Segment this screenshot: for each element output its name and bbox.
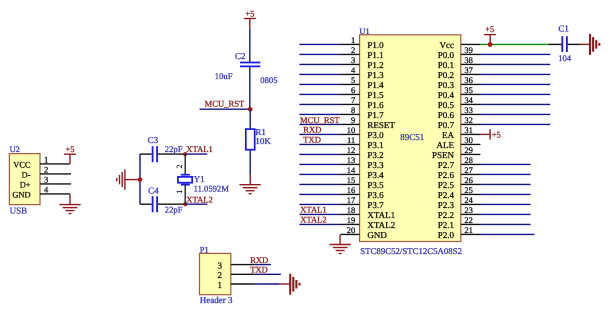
U1 pin 17 (P3.7) [299,195,384,210]
svg-text:22pF: 22pF [165,205,183,215]
svg-text:P3.7: P3.7 [367,200,384,210]
wire: P0.2 net [480,73,550,75]
U1 pin 6 (P1.5) [299,85,384,100]
svg-text:D+: D+ [20,180,31,189]
svg-text:P3.4: P3.4 [367,170,384,180]
U1 pin 2 (P1.1) [299,45,383,60]
svg-text:+5: +5 [485,24,494,34]
svg-text:P3.6: P3.6 [367,190,384,200]
wire: R1 to ground [249,150,251,175]
svg-text:24: 24 [464,195,473,205]
svg-text:U2: U2 [10,145,20,154]
svg-text:U1: U1 [359,27,369,36]
U2 pin 2 (D-) [40,164,71,174]
svg-text:P3.1: P3.1 [367,140,383,150]
U1 right pin 35 (P0.4) [438,85,481,100]
svg-text:C1: C1 [558,24,569,34]
U1 right pin 34 (P0.5) [438,95,481,110]
junction: XTAL2 node [183,202,187,206]
wire: P0.7 net [480,123,550,125]
svg-text:P2.5: P2.5 [438,180,455,190]
svg-text:35: 35 [464,85,473,95]
junction: crystal ground node [138,177,143,182]
svg-text:P0.4: P0.4 [438,90,455,100]
svg-text:D-: D- [22,170,31,179]
svg-text:P0.3: P0.3 [438,80,455,90]
capacitor C4 [140,185,185,212]
wire: +5 to C2 [249,29,251,58]
svg-text:P0.0: P0.0 [438,50,455,60]
svg-text:+5: +5 [245,8,254,18]
wire: C3/C4 left vertical [139,154,141,204]
resistor R1 [246,127,266,150]
svg-text:USB: USB [10,206,28,216]
svg-text:27: 27 [464,165,473,175]
svg-text:MCU_RST: MCU_RST [205,99,245,109]
U1 pin 19 (XTAL2) [299,215,395,230]
svg-text:C3: C3 [148,135,159,145]
svg-text:17: 17 [347,195,356,205]
svg-text:89C51: 89C51 [400,132,424,142]
svg-text:P2.0: P2.0 [438,230,455,240]
svg-text:P2.3: P2.3 [438,200,455,210]
U1 right pin 28 (P2.7) [438,155,481,170]
svg-text:31: 31 [464,125,473,135]
U1 pin 11 (P3.1) [299,135,383,150]
U1 right pin 25 (P2.4) [438,185,481,200]
U2 pin 3 (D+) [40,174,71,184]
svg-text:P2.2: P2.2 [438,210,454,220]
ground (C1) [581,34,599,55]
wire: P2.3 net [480,203,530,205]
U2 pin 4 (GND) [40,184,70,194]
wire: P2.2 net [480,213,530,215]
svg-text:Header 3: Header 3 [200,295,233,305]
svg-text:18: 18 [347,205,356,215]
U1 right pin 37 (P0.2) [438,65,481,80]
svg-text:1: 1 [44,154,48,164]
svg-text:11.0592M: 11.0592M [194,184,230,194]
svg-text:XTAL2: XTAL2 [367,220,395,230]
svg-text:22: 22 [464,215,473,225]
U1 right pin 24 (P2.3) [438,195,481,210]
P1 pin 1 [218,280,255,290]
wire: RXD net [255,264,271,266]
svg-text:P0.5: P0.5 [438,100,455,110]
svg-text:C2: C2 [235,51,246,61]
U1 pin 15 (P3.5) [299,175,384,190]
U1 pin 16 (P3.6) [299,185,384,200]
svg-text:36: 36 [464,75,473,85]
power +5 at U1 EA pin 31 [480,129,500,139]
U1 pin 12 (P3.2) [299,145,383,160]
svg-text:P2.7: P2.7 [438,160,455,170]
svg-text:19: 19 [347,215,356,225]
svg-text:RESET: RESET [367,120,395,130]
ground (R1) [239,175,260,194]
svg-text:TXD: TXD [250,265,268,275]
ground (crystal caps) [117,169,125,189]
U1 pin 9 (RESET) [299,115,395,130]
U1 pin 5 (P1.4) [299,75,384,90]
wire: P2.4 net [480,193,530,195]
svg-text:16: 16 [347,185,356,195]
U1 right pin 31 (EA) [442,125,480,140]
svg-text:37: 37 [464,65,473,75]
U1 right pin 33 (P0.6) [438,105,481,120]
svg-text:P2.6: P2.6 [438,170,455,180]
svg-text:26: 26 [464,175,473,185]
svg-text:+5: +5 [65,144,74,154]
svg-text:XTAL1: XTAL1 [367,210,395,220]
U1 right pin 30 (ALE) [437,135,481,150]
U1 pin 18 (XTAL1) [299,205,395,220]
U1 pin 14 (P3.4) [299,165,384,180]
U1 right pin 27 (P2.6) [438,165,481,180]
svg-text:P1.5: P1.5 [367,90,384,100]
svg-text:3: 3 [351,55,355,65]
svg-text:P3.2: P3.2 [367,150,383,160]
svg-text:32: 32 [464,115,473,125]
wire: C2 to MCU_RST node [249,72,251,110]
wire: P0.6 net [480,113,550,115]
svg-text:P3.5: P3.5 [367,180,384,190]
svg-text:15: 15 [347,175,356,185]
svg-text:2: 2 [218,270,223,280]
svg-text:P3.0: P3.0 [367,130,384,140]
svg-text:VCC: VCC [13,160,31,169]
U1 pin 8 (P1.7) [299,105,384,120]
svg-text:Vcc: Vcc [440,40,455,50]
svg-text:XTAL1: XTAL1 [300,205,327,215]
svg-text:28: 28 [464,155,473,165]
svg-text:TXD: TXD [303,135,321,145]
U1 pin 4 (P1.3) [299,65,384,80]
svg-text:10K: 10K [255,136,271,146]
svg-text:1: 1 [218,280,223,290]
svg-text:2: 2 [44,164,48,174]
svg-text:XTAL2: XTAL2 [186,195,213,205]
svg-text:2: 2 [175,165,184,169]
svg-text:P1.0: P1.0 [367,40,384,50]
wire: XTAL1 stub [185,153,207,155]
wire: to left ground [125,179,140,181]
connector U2 (USB) [9,145,40,215]
svg-text:13: 13 [347,155,356,165]
U1 pin 1 (P1.0) [299,35,384,50]
wire: P0.0 net [480,53,550,55]
svg-text:5: 5 [351,75,355,85]
wire: P2.0 net [480,233,534,235]
wire: XTAL2 stub [185,203,207,205]
svg-text:C4: C4 [148,185,159,195]
U1 right pin 32 (P0.7) [438,115,481,130]
svg-text:25: 25 [464,185,473,195]
connector P1 (Header 3) [200,245,234,304]
wire: P0.4 net [480,93,550,95]
power +5 (reset) [244,8,256,28]
U1 right pin 40 (Vcc) [440,40,481,50]
power +5 at U2 pin 1 [64,144,76,164]
svg-text:EA: EA [442,130,454,140]
svg-text:33: 33 [464,105,473,115]
svg-text:11: 11 [347,135,355,145]
svg-text:10: 10 [347,125,356,135]
svg-text:P0.7: P0.7 [438,120,455,130]
svg-text:XTAL2: XTAL2 [300,215,327,225]
svg-text:9: 9 [351,115,355,125]
svg-text:38: 38 [464,55,473,65]
U1 pin 7 (P1.6) [299,95,384,110]
U1 pin 20 (GND) [341,225,388,240]
U1 right pin 26 (P2.5) [438,175,481,190]
svg-text:1: 1 [175,190,184,194]
junction: XTAL1 node [183,152,187,156]
svg-text:14: 14 [347,165,356,175]
wire: P0.5 net [480,103,550,105]
svg-text:P1.4: P1.4 [367,80,384,90]
svg-text:P1: P1 [200,245,209,254]
wire: TXD net [255,273,281,275]
svg-text:+5: +5 [492,129,501,139]
U1 pin 13 (P3.3) [299,155,384,170]
wire: P2.7 net [480,163,530,165]
svg-text:6: 6 [351,85,355,95]
svg-text:ALE: ALE [437,140,455,150]
crystal Y1 [178,154,205,204]
svg-text:STC89C52/STC12C5A08S2: STC89C52/STC12C5A08S2 [360,246,462,256]
svg-text:P0.1: P0.1 [438,60,454,70]
capacitor C1 [549,24,581,52]
svg-text:P1.1: P1.1 [367,50,383,60]
svg-text:P1.7: P1.7 [367,110,384,120]
U1 right pin 38 (P0.1) [438,55,481,70]
wire: P1 pin1 to ground [255,283,280,285]
svg-text:23: 23 [464,205,473,215]
ground at U2 pin 4 [59,194,80,214]
svg-text:P1.2: P1.2 [367,60,383,70]
svg-text:P1.3: P1.3 [367,70,384,80]
svg-text:RXD: RXD [250,255,268,265]
power +5 at U1 Vcc [484,24,496,44]
svg-text:10uF: 10uF [215,71,233,81]
svg-text:4: 4 [44,184,49,194]
ground (U1 pin 20 GND) [330,234,351,253]
wire: Vcc net (green) [480,43,548,45]
wire: P0.1 net [480,63,550,65]
svg-text:22pF: 22pF [165,144,183,154]
IC U1 (89C51) body [359,27,460,242]
capacitor C2 [235,51,260,72]
svg-text:GND: GND [367,230,387,240]
U1 pin 3 (P1.2) [299,55,383,70]
svg-text:0805: 0805 [260,75,277,85]
svg-text:P2.1: P2.1 [438,220,454,230]
wire: P2.1 net [480,223,530,225]
wire: node to R1 [249,109,251,129]
capacitor C3 [140,135,185,162]
P1 pin 3 [218,260,255,270]
svg-text:RXD: RXD [303,125,321,135]
svg-text:8: 8 [351,105,355,115]
svg-text:30: 30 [464,135,473,145]
U1 right pin 29 (PSEN) [432,145,480,160]
U1 pin 10 (P3.0) [299,125,384,140]
U2 pin 1 (VCC) [40,154,70,164]
svg-text:34: 34 [464,95,473,105]
svg-text:4: 4 [351,65,356,75]
svg-text:20: 20 [347,225,356,235]
junction: MCU_RST node [248,107,253,112]
svg-text:GND: GND [12,190,30,199]
svg-text:XTAL1: XTAL1 [186,144,213,154]
svg-text:P0.2: P0.2 [438,70,454,80]
svg-text:P1.6: P1.6 [367,100,384,110]
U1 right pin 22 (P2.1) [438,215,481,230]
svg-text:104: 104 [558,53,572,63]
U1 right pin 23 (P2.2) [438,205,481,220]
wire: P0.3 net [480,83,550,85]
svg-text:39: 39 [464,45,473,55]
svg-text:3: 3 [44,174,48,184]
svg-text:12: 12 [347,145,356,155]
junction: Vcc +5 node [488,42,493,47]
wire: P2.6 net [480,173,530,175]
svg-text:7: 7 [351,95,355,105]
wire: P2.5 net [480,183,530,185]
ground (P1 pin 1) [280,274,300,295]
U1 right pin 39 (P0.0) [438,45,481,60]
svg-text:P0.6: P0.6 [438,110,455,120]
svg-text:3: 3 [218,260,223,270]
wire: MCU_RST horizontal [200,108,251,110]
svg-text:PSEN: PSEN [432,150,455,160]
P1 pin 2 [218,270,255,280]
svg-text:MCU_RST: MCU_RST [300,115,340,125]
U1 right pin 36 (P0.3) [438,75,481,90]
U1 right pin 21 (P2.0) [438,225,481,240]
svg-text:P2.4: P2.4 [438,190,455,200]
svg-text:29: 29 [464,145,473,155]
svg-text:2: 2 [351,45,355,55]
svg-text:P3.3: P3.3 [367,160,384,170]
svg-text:1: 1 [351,35,355,45]
svg-text:21: 21 [464,225,473,235]
